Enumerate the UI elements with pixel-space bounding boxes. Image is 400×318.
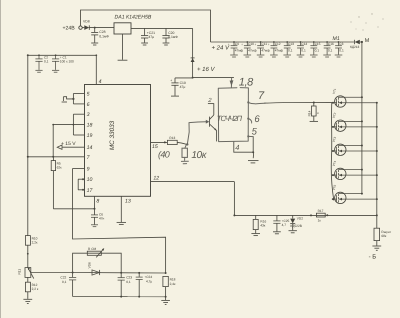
diode VD1 motor flyback <box>333 36 362 49</box>
capacitor С16 <box>323 41 334 57</box>
wire RC network bottom rail <box>73 296 166 298</box>
svg-text:15: 15 <box>152 144 158 150</box>
svg-text:14: 14 <box>87 145 93 151</box>
wire source rail <box>376 103 378 229</box>
svg-text:С23: С23 <box>126 276 132 280</box>
diode VD7 zener <box>289 215 304 232</box>
svg-text:С11: С11 <box>261 42 267 46</box>
pin 12 wire <box>151 176 377 217</box>
wire +24V rail <box>211 41 354 43</box>
resistor R13 <box>167 136 186 144</box>
svg-text:+ 15 V: + 15 V <box>61 141 76 147</box>
svg-text:R13: R13 <box>169 136 175 140</box>
svg-text:VD6: VD6 <box>87 262 91 268</box>
capacitor C23 <box>118 273 133 297</box>
svg-text:47мф: 47мф <box>248 49 257 53</box>
pin 15 wire <box>151 141 168 149</box>
resistor R12 2,2k <box>25 282 39 299</box>
resistor R16 43k on pin12 rail <box>251 215 266 235</box>
capacitor C20 <box>162 28 178 45</box>
svg-text:2,4к: 2,4к <box>170 282 176 286</box>
transistor VT5 <box>332 184 378 204</box>
svg-text:0,1: 0,1 <box>328 49 333 53</box>
svg-text:КД522В: КД522В <box>290 224 301 228</box>
wire bracket pins 10-17 <box>78 178 84 191</box>
svg-text:10: 10 <box>87 177 93 183</box>
ground shunt <box>372 246 381 250</box>
wire gate rail <box>331 102 334 200</box>
wire 62k to pin 8 <box>53 208 94 210</box>
svg-text:(40: (40 <box>158 149 170 159</box>
svg-text:2,2 к: 2,2 к <box>32 287 39 291</box>
svg-text:0,1: 0,1 <box>301 49 306 53</box>
svg-text:С10: С10 <box>248 42 254 46</box>
wire RC network top rail <box>73 253 122 273</box>
node corner dots <box>27 54 29 56</box>
wire gate line from driver <box>264 101 332 104</box>
capacitor C21 <box>141 28 155 45</box>
wire pin9 down and across <box>73 169 166 274</box>
capacitor C28 <box>91 28 109 45</box>
svg-text:R17: R17 <box>318 209 324 213</box>
capacitor С12 <box>268 41 284 57</box>
op-amp U1 : DA1 K142EN5B regulator <box>114 15 152 35</box>
wire to C18 <box>175 77 193 79</box>
svg-text:VD8: VD8 <box>83 20 90 24</box>
wire hand from R13 node up to base <box>186 120 209 146</box>
resistor R19 hand 10k <box>181 145 188 164</box>
capacitor С11 <box>254 41 270 57</box>
svg-text:С12: С12 <box>275 42 281 46</box>
resistor R15 68k shunt <box>374 228 392 245</box>
svg-text:2,2к: 2,2к <box>32 241 38 245</box>
node junction at C28 <box>94 27 96 29</box>
resistor R5 62k <box>51 157 62 209</box>
ground left chain <box>23 299 32 303</box>
switch SA1 <box>62 97 75 102</box>
wire DA1 output <box>131 27 193 29</box>
wire top rail from +24V terminal <box>81 10 211 42</box>
svg-text:М: М <box>365 38 370 44</box>
resistor R17 1k <box>310 209 328 222</box>
svg-text:13: 13 <box>125 199 131 205</box>
node M terminal <box>361 38 370 44</box>
node +15V arrow pin 14 <box>57 141 92 151</box>
ground driver <box>248 161 259 163</box>
capacitor С14 <box>297 41 308 57</box>
wire +16V to driver <box>193 77 234 79</box>
svg-text:43к: 43к <box>260 224 266 228</box>
pin 8 wire <box>94 196 100 210</box>
svg-text:0,1: 0,1 <box>315 49 320 53</box>
pin 9 wire <box>73 168 85 170</box>
svg-text:9: 9 <box>87 167 90 173</box>
capacitor C6 <box>91 209 105 227</box>
svg-text:С28: С28 <box>99 30 105 34</box>
wire bracket pins 5-6 <box>72 94 74 104</box>
svg-text:4: 4 <box>99 79 102 85</box>
svg-text:12: 12 <box>153 176 159 182</box>
svg-text:С16: С16 <box>328 42 334 46</box>
node +24V input terminal <box>63 26 83 32</box>
pin 7 wire <box>28 156 85 158</box>
op-amp U2 : MC33033 controller IC <box>85 85 151 197</box>
capacitor С9 <box>228 41 244 57</box>
svg-text:0,1: 0,1 <box>288 49 293 53</box>
svg-text:0,1: 0,1 <box>126 280 131 284</box>
pin 10 wire <box>78 178 85 180</box>
transistor Q1 printed driver <box>208 104 217 142</box>
pin 17 wire <box>78 189 85 191</box>
svg-text:47мф: 47мф <box>235 49 244 53</box>
capacitor С15 <box>310 41 321 57</box>
svg-text:+: + <box>268 42 270 46</box>
ground DA1 <box>118 34 128 60</box>
svg-text:С13: С13 <box>288 42 294 46</box>
wire hand pin7 <box>248 103 266 104</box>
scan edge left <box>0 0 2 318</box>
pin 18 wire <box>53 124 84 126</box>
svg-text:19: 19 <box>87 133 93 139</box>
wire pin18 drop to pin7 line <box>52 125 54 157</box>
svg-text:С3: С3 <box>339 42 343 46</box>
svg-text:68к: 68к <box>381 234 387 238</box>
svg-text:6: 6 <box>87 102 90 108</box>
svg-text:100 х 100: 100 х 100 <box>60 60 74 64</box>
resistor R18 2,4k <box>163 276 176 296</box>
transistor VT4 <box>332 160 378 180</box>
wire top-left rail <box>28 55 97 235</box>
svg-text:10к: 10к <box>191 150 207 161</box>
svg-text:2: 2 <box>207 97 212 104</box>
svg-text:VD2: VD2 <box>297 217 303 221</box>
pin 13 ground <box>117 196 131 224</box>
svg-text:КД213: КД213 <box>350 45 360 49</box>
transistor VT3 <box>332 136 378 156</box>
capacitor С10 <box>241 41 257 57</box>
node +16V junction <box>192 77 194 79</box>
svg-text:8: 8 <box>96 199 99 205</box>
wire RC network mid rail <box>73 272 166 275</box>
potentiometer R11 <box>18 267 34 282</box>
svg-text:ТСЧЧ2П: ТСЧЧ2П <box>217 114 243 123</box>
svg-text:62к: 62к <box>57 166 63 170</box>
svg-text:7: 7 <box>258 90 265 102</box>
scan speckles <box>350 13 383 30</box>
svg-text:+: + <box>254 42 256 46</box>
wire pin4 ground run <box>234 136 254 158</box>
svg-text:R11: R11 <box>18 269 22 275</box>
svg-text:+С24: +С24 <box>144 275 152 279</box>
capacitor C25 <box>273 215 290 233</box>
diode VD6 <box>87 262 99 275</box>
svg-text:С22: С22 <box>60 276 66 280</box>
svg-text:+ 16 V: + 16 V <box>197 66 216 73</box>
svg-text:+: + <box>228 42 230 46</box>
svg-text:4,7μ: 4,7μ <box>146 280 152 284</box>
diode VD8 <box>82 20 114 30</box>
capacitor С3 <box>335 41 344 57</box>
svg-text:47μ: 47μ <box>148 35 154 39</box>
pin 5 wire <box>73 93 84 95</box>
transistor VT1 <box>332 88 378 108</box>
svg-text:6: 6 <box>254 114 260 125</box>
svg-text:С15: С15 <box>315 42 321 46</box>
capacitor C1 <box>52 54 74 72</box>
svg-text:R14: R14 <box>307 110 311 116</box>
svg-text:5: 5 <box>87 92 90 98</box>
resistor R14 gate pulldown <box>307 102 319 122</box>
svg-text:0,1: 0,1 <box>62 280 67 284</box>
svg-text:+: + <box>170 78 172 82</box>
pin 6 wire <box>73 103 84 105</box>
pin 3 wire <box>73 113 84 115</box>
wire bracket pins 3-19 <box>72 114 74 135</box>
pin 19 wire <box>73 134 84 136</box>
svg-text:18: 18 <box>87 123 93 129</box>
capacitor C22 <box>60 273 76 297</box>
capacitor C2 <box>35 54 48 72</box>
wire motor drain rail <box>361 42 363 194</box>
resistor R10 2,2k <box>25 236 38 268</box>
wire +16V branch down <box>192 28 194 77</box>
svg-text:С9: С9 <box>235 42 239 46</box>
resistor R9 trimmer <box>87 247 104 258</box>
svg-text:- Б: - Б <box>369 254 377 261</box>
transistor VT2 <box>332 112 378 132</box>
svg-text:0,1мФ: 0,1мФ <box>168 35 178 39</box>
svg-text:0,1: 0,1 <box>339 49 344 53</box>
svg-text:+24В: +24В <box>63 26 76 32</box>
svg-text:0,1: 0,1 <box>44 60 49 64</box>
capacitor C18 <box>170 78 186 96</box>
svg-text:47н: 47н <box>99 217 105 221</box>
wire pot wiper <box>31 272 73 274</box>
svg-text:1,8: 1,8 <box>239 76 254 88</box>
svg-text:47мф: 47мф <box>275 49 284 53</box>
svg-text:47мф: 47мф <box>261 49 270 53</box>
capacitor С13 <box>283 41 294 57</box>
svg-text:4,7: 4,7 <box>282 223 287 227</box>
svg-text:+: + <box>241 42 243 46</box>
svg-text:С14: С14 <box>301 42 307 46</box>
ground RC network <box>161 297 170 305</box>
svg-text:М1: М1 <box>333 36 340 42</box>
svg-text:47μ: 47μ <box>180 85 186 89</box>
svg-text:0,1мФ: 0,1мФ <box>99 35 109 39</box>
svg-text:4: 4 <box>235 143 239 152</box>
svg-text:DA1 К142ЕН5В: DA1 К142ЕН5В <box>115 15 152 21</box>
capacitor C24 <box>136 273 153 297</box>
diode VD9 on +16V branch <box>191 58 195 62</box>
op-amp U3 : hand-drawn TC4420 box <box>218 78 248 141</box>
svg-text:R СМ: R СМ <box>88 247 96 251</box>
svg-text:5: 5 <box>252 126 258 137</box>
svg-text:3: 3 <box>87 112 90 118</box>
svg-text:МС 33033: МС 33033 <box>109 120 116 150</box>
